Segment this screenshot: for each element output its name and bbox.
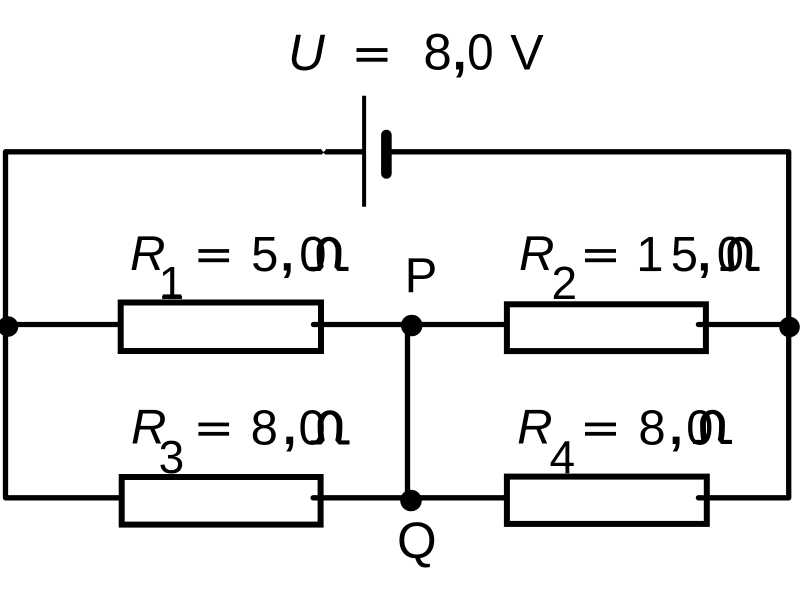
- svg-text:R: R: [517, 401, 552, 455]
- svg-text:U: U: [288, 24, 326, 81]
- wire: top-left segment + left side rail + bottom-left segment: [6, 152, 365, 498]
- resistor R2 box: [507, 304, 706, 351]
- wire joint pinch artifact on top wire: [321, 149, 327, 152]
- label: R1 unit ohm symbol: [310, 237, 349, 271]
- label: R3 = 8,0 ohm: [131, 401, 326, 484]
- resistor R4 box: [507, 477, 707, 524]
- resistor R3 box: [122, 477, 321, 525]
- svg-text:0: 0: [299, 228, 326, 282]
- svg-text:8: 8: [638, 402, 665, 456]
- svg-text:Q: Q: [397, 512, 437, 569]
- svg-text:3: 3: [159, 431, 185, 483]
- svg-text:1: 1: [159, 257, 185, 309]
- label: R1 = 5,0 ohm: [130, 227, 327, 309]
- svg-text:0: 0: [686, 402, 713, 456]
- junction dot: left node: [0, 316, 18, 337]
- wire stub inside R4 right: [698, 495, 703, 500]
- svg-text:,: ,: [453, 24, 467, 81]
- svg-text:0: 0: [467, 24, 494, 81]
- svg-text:,: ,: [280, 228, 294, 282]
- wire: vertical bridge P to Q: [405, 325, 410, 498]
- label: R2 = 15,0 ohm: [519, 227, 744, 309]
- svg-text:5: 5: [671, 228, 698, 282]
- junction dot: right node: [779, 317, 800, 338]
- wire stub inside R3 right: [313, 495, 318, 500]
- label: R4 = 8,0 ohm: [517, 401, 713, 484]
- svg-text:2: 2: [552, 257, 578, 309]
- svg-text:P: P: [405, 249, 438, 303]
- junction dot: node Q: [400, 490, 422, 512]
- battery B1 short thick plate (negative): [381, 135, 392, 174]
- wire: row1 right (R2 to right node): [706, 322, 789, 327]
- svg-text:8: 8: [423, 24, 451, 81]
- svg-text:,: ,: [698, 228, 712, 282]
- wire: row1 middle (R1 to node P to R2): [321, 322, 507, 327]
- svg-text:8: 8: [251, 402, 278, 456]
- svg-text:R: R: [519, 227, 554, 281]
- label: battery value U = 8,0 V: [288, 24, 544, 82]
- label: R3 unit ohm symbol: [311, 410, 350, 444]
- wire: row2 middle (R3 to node Q to R4): [321, 495, 508, 500]
- svg-text:,: ,: [283, 401, 297, 455]
- svg-text:4: 4: [550, 431, 576, 483]
- junction dot: node P: [401, 315, 423, 337]
- svg-text:1: 1: [636, 228, 663, 282]
- wire: row1 left (left node to R1): [3, 322, 121, 327]
- resistor R1 box: [121, 303, 321, 352]
- svg-text:5: 5: [251, 228, 278, 282]
- wire stub inside R1 right: [314, 322, 319, 327]
- svg-text:,: ,: [669, 401, 683, 455]
- wire stub inside R2 right: [698, 322, 703, 327]
- svg-text:V: V: [510, 25, 544, 81]
- label: R4 unit ohm symbol: [693, 410, 732, 444]
- battery B1 long plate (positive): [362, 96, 366, 207]
- label: R2 unit ohm symbol: [721, 237, 760, 271]
- wire: top-right segment + right side rail + bottom-right segment: [386, 152, 789, 498]
